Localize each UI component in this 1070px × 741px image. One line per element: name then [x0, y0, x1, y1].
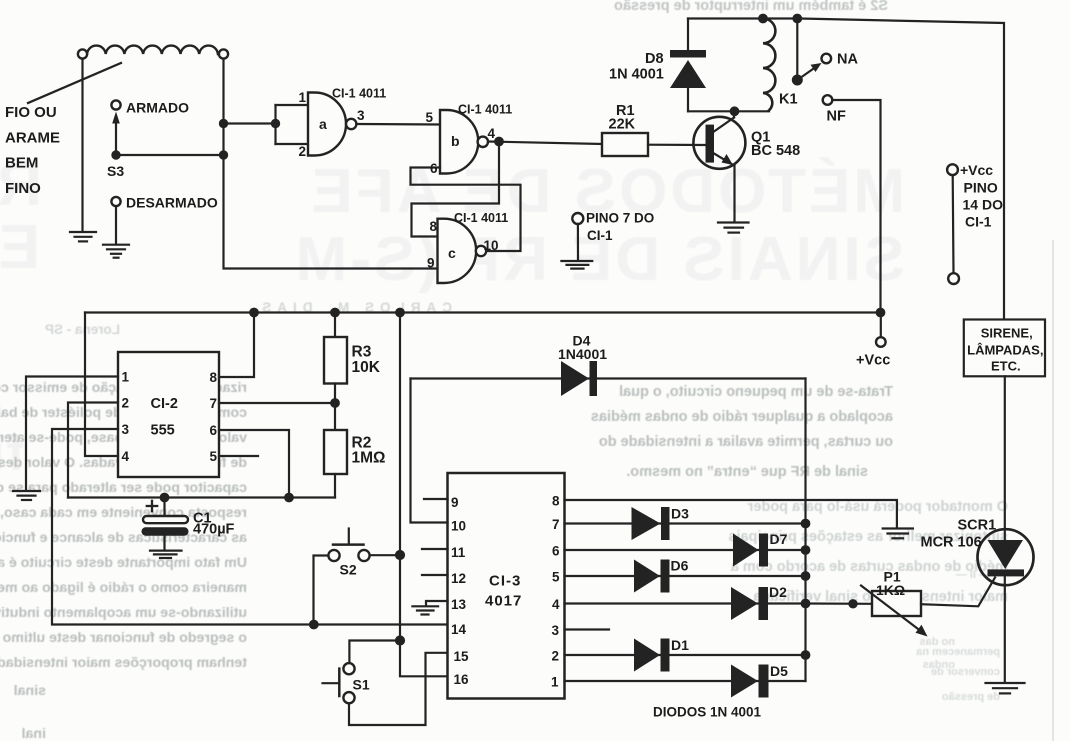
label D8 value [609, 51, 664, 83]
wire CI-3 pin 8 to ground [565, 500, 897, 528]
wire CI-3 pin 10 to D4 line [411, 379, 448, 523]
diode D2 [731, 587, 768, 620]
svg-text:1: 1 [551, 675, 559, 690]
node junction [849, 600, 856, 607]
svg-text:D1: D1 [671, 637, 689, 653]
svg-text:4: 4 [552, 597, 560, 612]
svg-text:S3: S3 [107, 163, 124, 179]
svg-text:PINO 7 DO: PINO 7 DO [586, 211, 654, 226]
svg-text:CI-1 4011: CI-1 4011 [332, 87, 386, 101]
svg-text:5: 5 [209, 449, 217, 464]
svg-text:ARMADO: ARMADO [126, 100, 189, 116]
label PINO 7 DO CI-1 [586, 211, 654, 244]
NAND gate CI-1 a [308, 93, 356, 156]
svg-text:CI-1: CI-1 [965, 214, 992, 230]
wire CI-3 pin 9 stub [424, 498, 448, 500]
svg-text:BEM: BEM [5, 155, 38, 172]
label +Vcc PINO 14 DO CI-1 [960, 162, 1003, 230]
svg-text:CI-2: CI-2 [151, 396, 178, 412]
node junction [794, 15, 802, 23]
node junction [220, 151, 227, 158]
svg-text:470µF: 470µF [193, 522, 235, 538]
svg-text:8: 8 [429, 219, 437, 234]
label FIO OU ARAME BEM FINO [5, 104, 60, 197]
wire diode bus [804, 379, 806, 682]
relay contact NA [822, 54, 832, 64]
wire 555 pin 2 to C1 node [68, 403, 118, 498]
svg-text:8: 8 [552, 494, 560, 509]
svg-text:10: 10 [451, 519, 466, 534]
label SIRENE LAMPADAS ETC [967, 326, 1043, 374]
diode D5 [731, 665, 769, 698]
svg-text:9: 9 [427, 256, 435, 271]
node junction [877, 309, 885, 317]
svg-text:8: 8 [209, 370, 217, 385]
svg-text:K1: K1 [779, 92, 798, 108]
thyristor SCR1 [978, 529, 1034, 585]
wire D8 to relay coil bottom [688, 110, 769, 112]
svg-text:4: 4 [488, 126, 496, 141]
svg-text:7: 7 [552, 517, 560, 532]
ground [883, 529, 913, 539]
svg-text:DESARMADO: DESARMADO [126, 195, 218, 211]
node junction [250, 309, 258, 317]
svg-text:CI-1 4011: CI-1 4011 [458, 103, 512, 117]
svg-text:ETC.: ETC. [991, 359, 1021, 374]
wire CI-3 pin 4 row [565, 602, 806, 604]
svg-text:FINO: FINO [5, 180, 41, 197]
node junction C1 [161, 494, 169, 502]
wire CI-3 pin 13 to ground [426, 601, 448, 606]
svg-text:6: 6 [430, 161, 438, 176]
svg-text:7: 7 [209, 396, 217, 411]
resistor R2 [324, 403, 347, 498]
svg-text:FIO OU: FIO OU [5, 104, 57, 121]
wire 555 pin 5 stub [219, 455, 258, 457]
svg-text:2: 2 [551, 649, 559, 664]
node junction [331, 309, 339, 317]
svg-text:1MΩ: 1MΩ [352, 450, 386, 467]
node junction [396, 309, 404, 317]
svg-text:5: 5 [425, 110, 433, 125]
svg-text:D8: D8 [645, 51, 664, 67]
wire coil right terminal down and to NAND gate c pin 9 [224, 59, 438, 269]
node junction collector [731, 108, 739, 116]
svg-text:D7: D7 [770, 531, 788, 547]
wire D4 row [411, 377, 806, 379]
relay K1 armature [793, 19, 822, 85]
ground [150, 551, 182, 558]
label D4 value [558, 333, 607, 363]
wire CI-3 pin 5 row [565, 575, 806, 577]
NAND gate CI-1 b [440, 110, 488, 174]
svg-text:NF: NF [827, 109, 846, 125]
ground [70, 232, 96, 241]
svg-text:MCR 106: MCR 106 [921, 535, 982, 551]
wire gate b output node [488, 142, 602, 145]
pin labels 555 right [209, 370, 217, 464]
label SCR1 value [921, 518, 997, 551]
ground [986, 683, 1025, 693]
wire coil left terminal to ground [81, 59, 83, 232]
wire NF to +Vcc bus [833, 100, 881, 313]
ground [103, 245, 129, 258]
svg-text:CI-3: CI-3 [489, 573, 521, 590]
svg-text:5: 5 [552, 570, 560, 585]
label CI-2 555 [151, 396, 178, 439]
svg-text:10: 10 [484, 238, 499, 253]
svg-text:D2: D2 [769, 584, 787, 600]
svg-text:ARAME: ARAME [5, 130, 60, 147]
ground [13, 491, 40, 500]
svg-text:BC 548: BC 548 [751, 143, 800, 159]
svg-text:+Vcc: +Vcc [856, 353, 890, 369]
diode D8 [670, 50, 706, 111]
svg-text:R3: R3 [352, 344, 372, 361]
svg-text:c: c [448, 245, 456, 261]
svg-text:555: 555 [151, 423, 175, 439]
relay contact NF [823, 95, 833, 105]
svg-text:12: 12 [451, 571, 466, 586]
svg-text:11: 11 [451, 545, 466, 560]
node junction pin 4 [495, 138, 503, 146]
svg-text:a: a [319, 116, 327, 132]
svg-text:CI-1 4011: CI-1 4011 [454, 211, 508, 225]
wire SCR cathode to ground [1004, 576, 1006, 682]
node junction [759, 15, 767, 23]
wire CI-3 pin 2 row [565, 654, 806, 656]
svg-text:2: 2 [122, 396, 130, 411]
node junction [802, 651, 810, 659]
capacitor C1 electrolytic [142, 498, 189, 551]
svg-text:1KΩ: 1KΩ [876, 582, 905, 598]
svg-text:1N 4001: 1N 4001 [609, 67, 664, 83]
svg-text:S1: S1 [353, 677, 370, 693]
wire S1 top to riser [349, 641, 400, 664]
label pointer line FIO OU ARAME BEM FINO [28, 63, 121, 103]
diode D4 [561, 361, 597, 396]
label R3 value [352, 344, 381, 377]
svg-text:6: 6 [552, 544, 560, 559]
svg-text:4017: 4017 [485, 593, 522, 610]
wire R1 to Q1 base [648, 144, 706, 147]
pin labels CI-3 left [451, 495, 469, 687]
svg-text:NA: NA [837, 52, 858, 68]
node junction [802, 572, 810, 580]
node junction [396, 551, 404, 559]
terminal +Vcc PINO 14 DO CI-1 [947, 164, 959, 284]
switch S3 arm arrow [112, 112, 120, 156]
svg-text:10K: 10K [352, 359, 381, 376]
ground [561, 261, 592, 269]
diode D1 [634, 639, 670, 672]
wire 555 pin 1 to ground [26, 377, 118, 491]
NAND gate CI-1 c [438, 219, 487, 283]
diode D7 [733, 534, 768, 567]
wire C1 line [68, 496, 335, 498]
node junction [802, 546, 810, 554]
wire CI-3 pin 7 row [565, 522, 806, 524]
terminal +Vcc [876, 313, 886, 347]
svg-text:1N4001: 1N4001 [558, 346, 607, 362]
wire 555 pin 3 output to CI-3 pin 14 [52, 429, 448, 625]
wire S1 bottom to CI-3 pin 15 [349, 653, 448, 725]
pushbutton S2 [328, 529, 369, 562]
node junction pin6 [285, 494, 293, 502]
svg-text:2: 2 [298, 144, 306, 159]
transistor Q1 [693, 111, 745, 169]
wire 555 pin 4 to +Vcc bus [85, 313, 118, 457]
switch S3 pole node [112, 151, 119, 158]
ground [718, 223, 749, 233]
svg-text:3: 3 [357, 108, 365, 123]
wire +Vcc bus [85, 311, 881, 313]
svg-text:1: 1 [298, 90, 306, 105]
svg-text:CI-1: CI-1 [587, 228, 613, 243]
svg-text:3: 3 [551, 623, 559, 638]
svg-text:4: 4 [122, 449, 130, 464]
svg-text:13: 13 [451, 597, 467, 612]
label R2 value [352, 435, 386, 467]
label P1 value [876, 569, 905, 599]
wire Vdd riser bus to CI-3 pin 16 [400, 313, 448, 677]
diode D3 [632, 507, 670, 540]
wire S2 right to Vdd riser [370, 554, 400, 556]
diode D6 [634, 560, 670, 593]
wire D8 branch [687, 19, 689, 51]
IC CI-2 555 [118, 352, 219, 477]
svg-text:3: 3 [122, 422, 130, 437]
terminal PINO 7 DO CI-1 [572, 213, 583, 261]
wire gate row to P1 [806, 602, 873, 604]
wire CI-3 pin 3 stub [565, 628, 610, 630]
resistor R3 [324, 313, 347, 404]
pin labels 555 left [122, 370, 130, 465]
svg-text:15: 15 [454, 649, 470, 664]
svg-text:D5: D5 [770, 663, 788, 679]
wire CI-3 pin 6 row [565, 549, 806, 551]
svg-text:9: 9 [451, 495, 459, 510]
svg-text:14: 14 [451, 622, 467, 637]
node junction [802, 520, 810, 528]
switch S3 terminal DESARMADO [111, 197, 120, 206]
svg-text:SCR1: SCR1 [958, 518, 997, 534]
label R1 value [609, 103, 636, 133]
resistor R1 [602, 133, 648, 156]
label Q1 value [751, 130, 800, 160]
wire top supply rail [688, 19, 1004, 320]
svg-text:22K: 22K [609, 117, 636, 133]
node junction [802, 600, 810, 608]
wire gate a output to gate b input pin 5 [357, 123, 441, 126]
svg-text:1: 1 [122, 370, 130, 385]
sensor coil (fio ou arame bem fino) [87, 46, 218, 54]
wire feedback gate c pin10 to gate b pin6 [411, 168, 521, 252]
node junction [310, 621, 318, 629]
svg-text:S2: S2 [340, 562, 357, 578]
wire P1 to SCR gate [921, 578, 995, 607]
wire SIRENE box to SCR anode [1004, 376, 1006, 542]
svg-text:PINO: PINO [964, 180, 998, 196]
wire node to gate a inputs bracket [224, 105, 309, 144]
wire 555 pin 6 to C1 line [219, 430, 289, 498]
pin labels CI-3 right [551, 494, 560, 690]
label C1 value [193, 511, 235, 538]
svg-text:D6: D6 [671, 558, 689, 574]
wire CI-3 pin 1 row [565, 680, 806, 682]
node junction [396, 637, 404, 645]
wire CI-3 pin 12 stub [422, 574, 448, 576]
svg-text:16: 16 [454, 672, 470, 687]
svg-text:LÂMPADAS,: LÂMPADAS, [967, 343, 1043, 358]
IC CI-3 4017 [448, 473, 565, 699]
svg-text:D3: D3 [671, 506, 689, 522]
label CI-3 4017 [485, 573, 522, 610]
node junction [272, 120, 279, 127]
box SIRENE LAMPADAS ETC [964, 320, 1045, 377]
node junction pin7/R3/R2 [331, 399, 339, 407]
svg-text:14 DO: 14 DO [963, 197, 1004, 213]
wire S2 left to pin14 line [314, 556, 329, 625]
svg-text:SIRENE,: SIRENE, [981, 326, 1033, 341]
wire CI-3 pin 11 stub [422, 548, 448, 550]
wire DESARMADO to ground [115, 206, 117, 244]
ground [412, 606, 438, 614]
wire 555 pin 7 to R3/R2 node [219, 402, 335, 404]
relay K1 coil [763, 19, 775, 111]
wire Q1 emitter to ground [733, 166, 735, 222]
switch S3 terminal ARMADO [111, 100, 120, 109]
svg-text:b: b [451, 133, 460, 149]
node junction [220, 120, 227, 127]
svg-text:DIODOS 1N 4001: DIODOS 1N 4001 [653, 705, 762, 720]
svg-text:+Vcc: +Vcc [960, 162, 993, 178]
svg-text:6: 6 [209, 423, 217, 438]
wire S3 pole to coil node [116, 154, 224, 156]
potentiometer P1 [861, 586, 928, 637]
wire feedback gate b pin4 to gate c pin8 [412, 142, 500, 237]
pushbutton S1 [323, 663, 355, 703]
wire 555 pin 8 to +Vcc bus [219, 313, 254, 378]
